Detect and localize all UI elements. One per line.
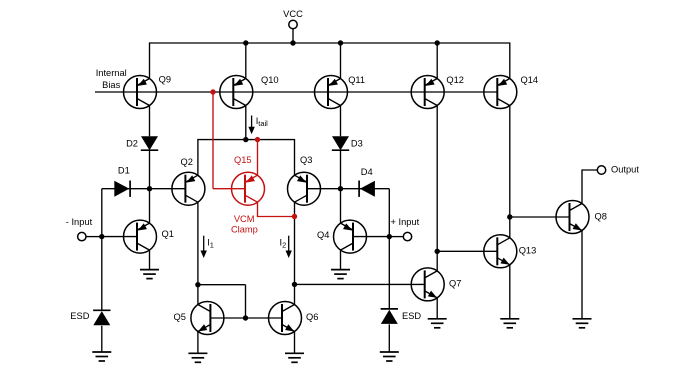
- terminal minus input: [78, 232, 86, 240]
- svg-text:Q5: Q5: [174, 312, 186, 322]
- svg-text:Bias: Bias: [102, 80, 120, 90]
- wire minus-input vertical: [101, 189, 103, 311]
- current arrow I2: [286, 236, 292, 258]
- svg-text:Q15: Q15: [234, 155, 252, 165]
- diode D1: [114, 181, 130, 197]
- wire red Q15 collector: [258, 202, 295, 216]
- wire D4 branch: [341, 188, 390, 190]
- wire Q13 base: [437, 250, 497, 252]
- ground Q7: [428, 319, 447, 328]
- svg-text:D2: D2: [126, 138, 138, 148]
- wire Q14 collector to Q13 collector: [509, 105, 511, 237]
- svg-text:Q9: Q9: [159, 74, 171, 84]
- transistor Q14: [484, 76, 517, 109]
- ground Q13: [500, 319, 519, 328]
- wire Q5 emitter to ground: [197, 331, 199, 353]
- node VCC rail junction at VCC stem: [290, 40, 295, 45]
- node minus-input junction: [99, 234, 104, 239]
- ground ESD right: [380, 352, 399, 361]
- label VCM Clamp: [231, 214, 258, 235]
- wire Q6 collector to Q7 base: [295, 283, 425, 285]
- wire minus-input stub: [86, 236, 102, 238]
- transistor Q5: [191, 302, 224, 335]
- wire red Q15 emitter: [257, 140, 259, 176]
- wire plus-input vertical: [388, 189, 390, 309]
- wire Q12 collector to Q7 collector: [436, 105, 438, 270]
- node plus-input junction: [387, 234, 392, 239]
- wire Q5 diode link horizontal: [198, 284, 246, 286]
- label plus Input: [391, 217, 420, 227]
- svg-text:ESD: ESD: [70, 311, 89, 321]
- wire Q8 emitter to ground: [581, 230, 583, 318]
- terminal VCC: [289, 20, 297, 28]
- node VCC rail junction at Q11: [338, 40, 343, 45]
- wire minus-input clamp branch: [102, 188, 150, 190]
- svg-text:Q12: Q12: [446, 75, 464, 85]
- node Q8 base junction: [507, 214, 512, 219]
- current arrow I1: [201, 236, 207, 258]
- wire Q9 collector to D2: [149, 105, 151, 136]
- svg-text:ESD: ESD: [402, 311, 421, 321]
- svg-text:Q11: Q11: [348, 75, 365, 85]
- wire Q5 diode link vertical: [245, 285, 247, 318]
- svg-text:Q13: Q13: [519, 246, 537, 256]
- label Output: [611, 164, 639, 174]
- transistor Q2: [172, 172, 205, 205]
- label Q10: [261, 75, 279, 85]
- wire red Q15 base lead: [213, 188, 245, 190]
- svg-text:Clamp: Clamp: [231, 224, 258, 234]
- wire red Q15 base net vertical: [212, 92, 214, 189]
- label D3: [351, 138, 363, 148]
- transistor Q9: [124, 76, 157, 109]
- label Internal Bias: [96, 68, 127, 90]
- diode D3: [332, 136, 349, 150]
- svg-text:VCM: VCM: [234, 214, 255, 224]
- wire Q10 collector to tail node: [245, 105, 247, 139]
- node tail junction Q10: [243, 137, 248, 142]
- svg-text:Q4: Q4: [317, 230, 329, 240]
- wire Q10 emitter: [245, 43, 247, 79]
- svg-text:D4: D4: [361, 167, 373, 177]
- wire Q2 collector to Q5: [197, 202, 199, 304]
- wire Q11 collector to D3: [340, 105, 342, 136]
- node red junction on bias rail: [210, 89, 215, 94]
- node mirror base junction: [243, 315, 248, 320]
- wire Q13 emitter to ground: [509, 265, 511, 319]
- label Q14: [521, 75, 539, 85]
- wire Q4 base: [353, 236, 389, 238]
- label VCC: [283, 9, 303, 19]
- diode D2: [141, 136, 158, 150]
- label Q3: [300, 155, 312, 165]
- svg-text:Q7: Q7: [449, 279, 461, 289]
- current arrow Itail: [248, 116, 254, 135]
- label Q13: [519, 246, 537, 256]
- transistor Q13: [484, 235, 517, 268]
- transistor Q8: [556, 201, 589, 234]
- diode D4: [359, 181, 375, 197]
- label minus Input: [66, 217, 93, 227]
- svg-text:Q10: Q10: [261, 75, 279, 85]
- transistor Q1: [124, 220, 157, 253]
- ground Q1: [140, 270, 159, 279]
- wire Q4 emitter to clamp node: [340, 189, 342, 223]
- terminal output: [597, 166, 605, 174]
- wire Q3 collector to Q6: [294, 202, 296, 304]
- node VCC rail junction at Q12: [435, 40, 440, 45]
- wire Q8 collector to output: [582, 170, 597, 204]
- label D4: [361, 167, 373, 177]
- wire Q3 base: [307, 188, 341, 190]
- wire VCC rail: [150, 43, 510, 79]
- wire Q8 base: [510, 216, 570, 218]
- wire tail rail: [198, 140, 295, 176]
- transistor Q11: [315, 76, 348, 109]
- wire Q5 Q6 base rail: [210, 317, 282, 319]
- transistor Q12: [411, 76, 444, 109]
- node VCC rail junction at Q10: [243, 40, 248, 45]
- transistor Q7: [411, 268, 444, 301]
- wire ESD right to ground: [388, 324, 390, 352]
- label ESD right: [402, 311, 421, 321]
- svg-text:Q2: Q2: [181, 157, 193, 167]
- wire Q6 emitter to ground: [294, 331, 296, 353]
- label Q7: [449, 279, 461, 289]
- diode ESD right: [381, 309, 398, 324]
- wire Q1 base: [102, 236, 137, 238]
- node Q6 collector junction: [292, 282, 297, 287]
- wire VCC stem: [292, 29, 294, 43]
- svg-text:Q3: Q3: [300, 155, 312, 165]
- node Q13 base junction: [435, 249, 440, 254]
- svg-text:Output: Output: [611, 164, 639, 174]
- label Q12: [446, 75, 464, 85]
- label Q11: [348, 75, 365, 85]
- ground Q4: [331, 270, 350, 279]
- svg-text:Q14: Q14: [521, 75, 539, 85]
- wire Q1 collector to ground: [149, 250, 151, 270]
- svg-text:Q1: Q1: [162, 229, 174, 239]
- label Q8: [595, 211, 607, 221]
- ground ESD left: [92, 352, 111, 361]
- label Q2: [181, 157, 193, 167]
- node red junction on tail rail: [255, 137, 260, 142]
- terminal plus input: [403, 232, 411, 240]
- node clamp node right: [338, 186, 343, 191]
- wire Q7 emitter to ground: [436, 298, 438, 319]
- transistor Q10: [220, 76, 253, 109]
- ground Q6: [285, 353, 304, 362]
- label ESD left: [70, 311, 89, 321]
- wire Q4 collector to ground: [340, 250, 342, 270]
- node clamp node left: [147, 186, 152, 191]
- label I2: [280, 238, 287, 250]
- transistor Q6: [269, 302, 302, 335]
- svg-text:Q8: Q8: [595, 211, 607, 221]
- wire Q11 emitter: [340, 43, 342, 79]
- label Q6: [306, 312, 318, 322]
- wire Q1 emitter to clamp node: [149, 189, 151, 223]
- label Q1: [162, 229, 174, 239]
- svg-text:+ Input: + Input: [391, 217, 420, 227]
- transistor Q4: [334, 220, 367, 253]
- wire plus-input stub: [389, 236, 403, 238]
- wire ESD left to ground: [101, 326, 103, 352]
- label Q15: [234, 155, 252, 165]
- label I1: [207, 238, 214, 250]
- transistor Q3: [288, 172, 321, 205]
- svg-text:Internal: Internal: [96, 68, 127, 78]
- wire D3 to clamp node: [340, 150, 342, 189]
- wire internal bias base rail: [95, 91, 497, 93]
- label D2: [126, 138, 138, 148]
- svg-text:VCC: VCC: [283, 9, 303, 19]
- ground Q8: [573, 319, 592, 328]
- ground Q5: [188, 353, 207, 362]
- label Q9: [159, 74, 171, 84]
- label Itail: [256, 116, 268, 128]
- wire D2 to clamp node: [149, 150, 151, 189]
- node red junction on Q3 collector: [292, 214, 297, 219]
- label D1: [118, 165, 130, 175]
- wire Q2 base: [150, 188, 186, 190]
- node Q5 collector junction: [195, 282, 200, 287]
- wire Q12 emitter: [436, 43, 438, 79]
- svg-text:- Input: - Input: [66, 217, 93, 227]
- svg-text:Q6: Q6: [306, 312, 318, 322]
- diode ESD left: [93, 310, 110, 325]
- label Q5: [174, 312, 186, 322]
- label Q4: [317, 230, 329, 240]
- svg-text:D3: D3: [351, 138, 363, 148]
- svg-text:D1: D1: [118, 165, 130, 175]
- transistor Q15: [232, 172, 265, 205]
